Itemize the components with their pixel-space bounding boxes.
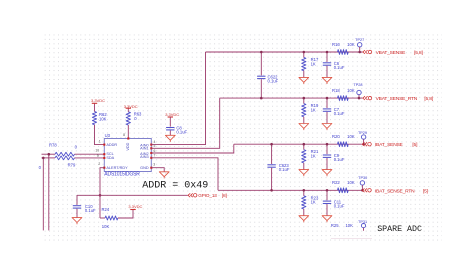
node junction R17	[303, 51, 306, 54]
connector IBAT_SENSE	[362, 142, 417, 148]
pin number 7	[154, 154, 156, 158]
wire SCL segment to U3 pin 10	[75, 153, 105, 155]
wire AIN3 net	[151, 158, 218, 191]
svg-text:1K: 1K	[311, 154, 316, 159]
svg-text:IBAT_SENSE: IBAT_SENSE	[375, 142, 404, 148]
node junction C622 bottom	[260, 97, 263, 100]
wire channel row 1	[206, 51, 363, 53]
ground at R17	[299, 77, 309, 84]
wire AIN1 net	[151, 98, 219, 148]
pin number 4	[154, 140, 156, 144]
svg-text:0.1uF: 0.1uF	[334, 157, 345, 162]
resistor R24	[102, 207, 118, 229]
connector GPIO_13	[188, 193, 227, 198]
svg-text:GPIO_13: GPIO_13	[198, 193, 217, 198]
svg-text:R18: R18	[332, 88, 340, 93]
svg-text:SDA: SDA	[106, 156, 114, 160]
node junction C6	[326, 51, 329, 54]
svg-text:TP28: TP28	[353, 83, 362, 87]
power symbol 3.3VDC at R62	[91, 98, 105, 103]
test point TP28	[353, 83, 362, 98]
resistor R19	[302, 98, 319, 123]
ground at C11	[322, 216, 332, 223]
wire R24 right to power	[118, 210, 133, 219]
svg-text:[5,8]: [5,8]	[414, 50, 423, 56]
wire channel row 4	[218, 189, 362, 191]
svg-text:ALERT/RDY: ALERT/RDY	[106, 166, 128, 170]
wire SDA segment from left	[42, 157, 56, 159]
svg-text:[5]: [5]	[423, 188, 428, 194]
wire SCL segment from left	[42, 153, 56, 155]
svg-text:8: 8	[123, 133, 125, 137]
node junction C11	[326, 189, 329, 192]
power symbol 3.3VDC at R24	[128, 204, 142, 210]
wire AIN0 net	[151, 52, 205, 145]
resistor R63	[126, 108, 142, 125]
svg-text:VBAT_SENSE_RTN: VBAT_SENSE_RTN	[376, 96, 418, 102]
svg-text:R79: R79	[68, 162, 76, 167]
svg-text:9: 9	[97, 154, 99, 158]
svg-text:1K: 1K	[311, 61, 316, 66]
connector VBAT_SENSE	[363, 50, 423, 56]
svg-text:R16: R16	[332, 42, 340, 47]
svg-text:3: 3	[153, 162, 155, 166]
power symbol 3.3VDC at R63	[124, 104, 138, 109]
svg-text:[5]: [5]	[412, 142, 417, 148]
connector IBAT_SENSE_RTN	[362, 188, 428, 194]
capacitor C9	[323, 144, 345, 169]
wire ALERT/RDY down	[100, 168, 104, 218]
svg-text:7: 7	[154, 154, 156, 158]
svg-text:TP31: TP31	[358, 220, 367, 224]
wire channel row 2	[220, 97, 363, 99]
ground at C8	[165, 135, 175, 142]
pin number 8	[123, 133, 125, 137]
svg-text:[8]: [8]	[222, 193, 227, 198]
ground at C9	[322, 170, 332, 177]
wire R24 left	[100, 217, 105, 219]
node junction TP30	[361, 189, 364, 192]
svg-text:1K: 1K	[311, 200, 316, 205]
op-amp U3 ADC ADS1015IDGSR	[104, 133, 151, 178]
capacitor C7	[323, 98, 345, 123]
test point TP31	[358, 220, 367, 231]
svg-text:1: 1	[99, 140, 101, 144]
svg-text:0.1uF: 0.1uF	[334, 65, 345, 70]
svg-text:GND: GND	[140, 166, 149, 170]
resistor R78	[49, 143, 78, 157]
capacitor C8	[166, 117, 187, 135]
wire ALERT to C10	[77, 194, 100, 196]
ground at R19	[299, 124, 309, 131]
node junction C623 top	[270, 143, 273, 146]
resistor R22	[332, 180, 355, 193]
svg-text:3.3VDC: 3.3VDC	[124, 104, 138, 109]
svg-text:TP29: TP29	[358, 131, 367, 135]
capacitor C10	[73, 195, 96, 217]
resistor R23	[302, 190, 319, 215]
pin 7 stub	[150, 157, 152, 159]
node junction TP29	[362, 143, 365, 146]
capacitor C6	[323, 52, 345, 77]
node junction R19	[303, 97, 306, 100]
connector VBAT_SENSE_RTN	[363, 96, 433, 102]
svg-text:10K: 10K	[347, 88, 355, 93]
node junction ALERT	[99, 194, 102, 197]
node junction C623 bottom	[270, 189, 273, 192]
svg-text:ADDR: ADDR	[106, 143, 117, 147]
pin 6 stub	[150, 152, 152, 154]
svg-text:R78: R78	[49, 143, 57, 148]
svg-text:3.3VDC: 3.3VDC	[91, 98, 105, 103]
pin number 9	[97, 154, 99, 158]
pin 9 stub	[103, 157, 105, 159]
svg-text:AIN1: AIN1	[140, 147, 148, 151]
svg-text:10K: 10K	[102, 224, 110, 229]
resistor R21	[302, 144, 319, 169]
pin 4 stub	[150, 144, 152, 146]
node junction R21	[303, 143, 306, 146]
pin number 6	[154, 149, 156, 153]
node junction R23	[303, 189, 306, 192]
resistor R20	[332, 134, 355, 147]
test point TP30	[358, 176, 367, 190]
svg-text:R25: R25	[331, 223, 339, 228]
svg-text:10K: 10K	[347, 134, 355, 139]
svg-text:10K: 10K	[347, 180, 355, 185]
svg-text:SPARE ADC: SPARE ADC	[377, 225, 422, 234]
svg-text:0.1uF: 0.1uF	[268, 79, 279, 84]
wire SDA segment to U3 pin 9	[75, 157, 105, 159]
text SPARE ADC	[377, 225, 422, 234]
svg-text:10: 10	[95, 149, 99, 153]
wire AIN2 net	[151, 144, 234, 153]
svg-text:VBAT_SENSE: VBAT_SENSE	[376, 50, 407, 56]
ground at R23	[299, 216, 309, 223]
svg-text:U3: U3	[105, 133, 111, 138]
svg-text:2: 2	[98, 162, 100, 166]
wire vertical SDA branch	[42, 158, 44, 231]
resistor R25 labels	[331, 223, 353, 228]
svg-text:ADDR = 0x49: ADDR = 0x49	[142, 181, 208, 192]
node junction TP27	[358, 51, 361, 54]
svg-text:6: 6	[154, 149, 156, 153]
svg-text:TP27: TP27	[355, 38, 364, 42]
pin 10 stub	[103, 153, 105, 155]
ground at U3 pin 3	[159, 172, 169, 179]
resistor R62	[92, 103, 107, 124]
wire channel row 3	[234, 143, 362, 145]
pin 5 stub	[150, 147, 152, 149]
capacitor C11	[323, 190, 345, 215]
capacitor C623	[267, 144, 289, 190]
resistor R18	[332, 88, 355, 101]
wire ALERT to GPIO_13	[100, 194, 188, 196]
node junction TP28	[358, 97, 361, 100]
node junction SCL	[48, 153, 51, 156]
svg-text:R22: R22	[332, 180, 340, 185]
svg-text:10K: 10K	[345, 223, 353, 228]
pin 8 stub	[127, 137, 129, 139]
test point TP27	[355, 38, 364, 52]
node junction C622 top	[260, 51, 263, 54]
resistor R16	[332, 42, 355, 55]
pin 2 stub	[103, 167, 105, 169]
svg-text:3.3VDC: 3.3VDC	[128, 204, 142, 209]
svg-text:AIN3: AIN3	[140, 155, 148, 159]
svg-text:TP30: TP30	[358, 176, 367, 180]
svg-text:IBAT_SENSE_RTN: IBAT_SENSE_RTN	[375, 188, 415, 194]
svg-text:0.1uF: 0.1uF	[176, 129, 187, 134]
pin 3 stub	[150, 167, 152, 169]
resistor R79	[39, 156, 76, 170]
capacitor C622	[257, 52, 279, 98]
ground at R21	[299, 170, 309, 177]
pin number 5	[154, 144, 156, 148]
node junction C9	[326, 143, 329, 146]
pin number 3	[153, 162, 155, 166]
pin 1 stub	[103, 144, 105, 146]
wire R63 to U3 pin 8 VDD	[127, 125, 129, 139]
pin number 1	[99, 140, 101, 144]
svg-text:3.3VDC: 3.3VDC	[165, 112, 179, 117]
test point TP29	[358, 131, 367, 144]
ground at C10	[72, 218, 82, 225]
node junction SDA	[42, 157, 45, 160]
power symbol 3.3VDC at C8	[165, 112, 179, 117]
text ADDR = 0x49	[142, 181, 208, 192]
svg-text:ADS1015IDGSR: ADS1015IDGSR	[104, 172, 140, 178]
svg-text:VDD: VDD	[126, 142, 130, 150]
svg-text:0.1uF: 0.1uF	[334, 203, 345, 208]
wire spare faint	[331, 237, 372, 239]
resistor R17	[302, 52, 319, 77]
wire vertical SCL branch	[48, 154, 50, 230]
wire ADDR pin 1 to R62	[95, 125, 105, 145]
svg-text:R24: R24	[102, 207, 110, 212]
wire U3 GND pin 3	[151, 168, 164, 172]
ground at C7	[322, 124, 332, 131]
pin number 10	[95, 149, 99, 153]
svg-text:1K: 1K	[311, 107, 316, 112]
svg-text:10K: 10K	[99, 116, 107, 121]
svg-text:10K: 10K	[347, 42, 355, 47]
svg-text:0.1uF: 0.1uF	[279, 167, 290, 172]
svg-text:0.1uF: 0.1uF	[334, 111, 345, 116]
svg-text:0.1uF: 0.1uF	[85, 208, 96, 213]
node junction C7	[326, 97, 329, 100]
pin number 2	[98, 162, 100, 166]
svg-text:[5,8]: [5,8]	[424, 96, 433, 102]
ground at C6	[322, 77, 332, 84]
svg-text:R20: R20	[332, 134, 340, 139]
